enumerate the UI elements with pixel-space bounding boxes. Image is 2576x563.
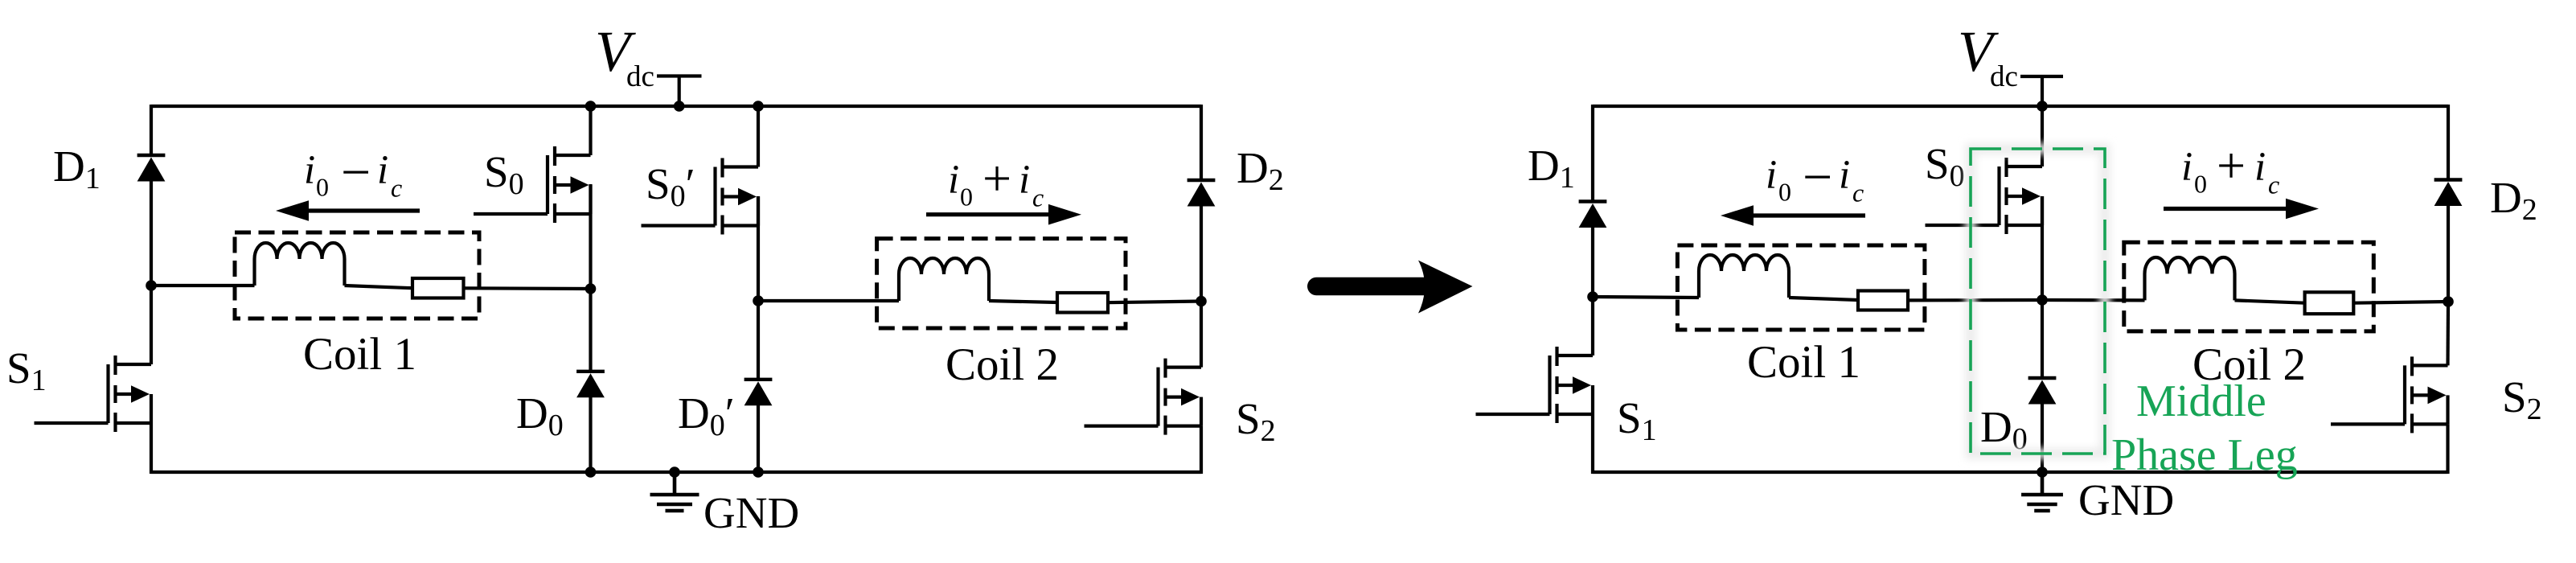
resistor coil 1 (right circuit) (1858, 291, 1908, 310)
Vdc terminal bar (right circuit) (2020, 75, 2063, 78)
svg-text:GND: GND (2078, 475, 2174, 524)
middle phase leg green dashed box (1971, 149, 2105, 454)
inductor coil 2 (right circuit) (2145, 257, 2235, 300)
transistor S2 (right circuit) (2331, 356, 2448, 433)
wire coil 1 to phase node (464, 286, 593, 290)
coil 2 dashed box (right circuit) (2124, 242, 2374, 331)
wire D0 anode to bottom rail (589, 397, 592, 472)
current arrow i0+ic (right circuit) (2164, 199, 2319, 220)
diode D0 (576, 372, 605, 398)
diode D2 (right circuit) (2434, 180, 2463, 207)
node middle phase midpoint (2037, 294, 2048, 306)
diode D2 (1188, 180, 1216, 207)
wire mid node to S1 drain (150, 286, 153, 364)
svg-text:dc: dc (1990, 60, 2018, 93)
wire left rail upper segment (right circuit) (1591, 105, 1594, 202)
ground (left circuit) (650, 473, 699, 511)
wire mid node to coil 1 (right circuit) (1593, 297, 1699, 298)
node A (left rail mid junction) (146, 280, 157, 291)
svg-text:Coil 1: Coil 1 (303, 329, 416, 380)
node top rail Vdc tap (left circuit) (674, 101, 685, 112)
wire coil 2 to right rail (1108, 302, 1202, 303)
node bottom rail ground junction (right circuit) (2037, 466, 2048, 478)
wire top rail to S0-prime drain (757, 106, 760, 167)
wire top rail (right circuit) (1593, 105, 2448, 108)
wire D2 anode to output node (right circuit) (2447, 206, 2450, 302)
diode D0-prime (744, 380, 773, 406)
transistor S0 (474, 146, 591, 223)
wire Vdc stub (right circuit) (2041, 76, 2044, 106)
middle phase leg highlight glow (1971, 149, 2105, 454)
inductor coil 2 (left circuit) (899, 258, 989, 301)
node left rail mid junction (right circuit) (1587, 291, 1598, 302)
wire output node to S2 drain (right circuit) (2446, 302, 2450, 365)
wire inductor to resistor (coil 2 right) (2235, 300, 2305, 302)
wire mid node to S1 drain (right circuit) (1591, 297, 1594, 355)
node bottom rail - leg 2 (753, 466, 764, 478)
wire top rail to S0 drain (589, 106, 592, 155)
resistor coil 2 (left circuit) (1057, 293, 1108, 313)
wire D1 to mid node (right circuit) (1591, 228, 1594, 298)
node right rail output (right circuit) (2443, 296, 2454, 307)
diode D1 (right circuit) (1579, 202, 1607, 228)
wire middle phase node to D0 (right circuit) (2041, 300, 2044, 379)
wire mid node to coil 1 (151, 284, 255, 287)
coil 1 dashed box (235, 232, 479, 318)
current arrow i0-ic (left circuit) (276, 200, 420, 221)
diode D1 (137, 155, 166, 182)
wire right rail upper segment (right circuit) (2447, 105, 2450, 180)
resistor coil 2 (right circuit) (2305, 292, 2354, 314)
transistor S1 (35, 355, 152, 432)
node phase leg 2 midpoint (753, 295, 764, 306)
inductor coil 1 (right circuit) (1699, 255, 1789, 298)
wire coil 1 to middle phase node (1908, 298, 2042, 302)
wire D2 anode to output node (1200, 206, 1203, 302)
transform arrow (1307, 261, 1472, 314)
transistor S0-prime (642, 158, 759, 235)
wire middle phase node to coil 2 (right circuit) (2042, 298, 2145, 302)
wire D0 anode to bottom rail (right circuit) (2041, 404, 2044, 472)
transistor S1 (right circuit) (1476, 347, 1594, 423)
node phase leg 1 midpoint (585, 283, 597, 294)
wire output node to S2 drain (1200, 302, 1203, 368)
svg-text:Coil 1: Coil 1 (1747, 337, 1860, 388)
node top rail - S0-prime leg (753, 101, 764, 112)
node top rail - S0 leg (585, 101, 597, 112)
wire bottom rail (left circuit) (151, 471, 1201, 474)
svg-text:dc: dc (626, 60, 654, 93)
node top rail Vdc tap (right circuit) (2037, 101, 2048, 112)
transistor S0 (right circuit) (1926, 158, 2043, 234)
wire D0-prime anode to bottom rail (757, 405, 760, 472)
coil 2 dashed box (left circuit) (877, 239, 1126, 328)
current arrow i0-ic (right circuit) (1721, 205, 1865, 226)
wire top rail (left circuit) (151, 105, 1201, 108)
wire left rail to mid node (150, 181, 153, 286)
coil 1 dashed box (right circuit) (1677, 245, 1925, 330)
svg-text:GND: GND (703, 488, 799, 537)
wire left rail upper segment (150, 105, 153, 156)
wire bottom rail (right circuit) (1593, 471, 2448, 474)
wire S0 source to middle phase node (2041, 196, 2044, 301)
wire S0-prime source to phase node 2 (757, 196, 760, 302)
transistor S2 (1085, 359, 1202, 435)
wire S0 source to phase node 1 (589, 184, 592, 290)
wire right rail upper segment (1200, 105, 1203, 181)
resistor coil 1 (412, 278, 464, 298)
ground (right circuit) (2021, 473, 2063, 511)
wire phase node 1 to D0 (589, 289, 592, 372)
wire inductor to resistor (coil 1 right) (1789, 298, 1858, 300)
Vdc terminal bar (left circuit) (657, 74, 702, 77)
wire inductor to resistor (coil 1) (345, 286, 413, 288)
wire S1 source to bottom rail (right circuit) (1591, 414, 1594, 474)
wire S2 source to bottom rail (1200, 426, 1203, 474)
node bottom rail - leg 1 (585, 466, 597, 478)
inductor coil 1 (255, 243, 345, 286)
node right rail output (left circuit) (1196, 296, 1207, 307)
svg-text:Phase Leg: Phase Leg (2111, 430, 2298, 480)
wire top rail to S0 drain (right circuit) (2041, 106, 2044, 166)
wire coil 2 to right rail (right circuit) (2353, 302, 2449, 303)
wire S1 source to bottom rail (150, 423, 153, 474)
wire phase node 2 to D0-prime (757, 301, 760, 380)
wire Vdc stub (left circuit) (678, 76, 681, 107)
wire phase node 2 to coil 2 (758, 299, 899, 302)
diode D0 (right circuit) (2028, 378, 2057, 405)
current arrow i0+ic (left circuit) (926, 204, 1081, 225)
svg-text:Coil 2: Coil 2 (945, 339, 1059, 390)
wire S2 source to bottom rail (right circuit) (2446, 424, 2449, 474)
wire inductor to resistor (coil 2 left) (989, 301, 1057, 302)
svg-text:Coil 2: Coil 2 (2192, 339, 2306, 390)
svg-text:D0′: D0′ (678, 388, 735, 442)
node bottom rail ground tap (left circuit) (669, 466, 680, 478)
